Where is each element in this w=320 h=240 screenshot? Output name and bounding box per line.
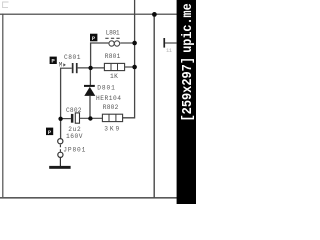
svg-text:L801: L801 [106, 29, 120, 36]
svg-text:C802: C802 [66, 107, 82, 114]
svg-text:HER104: HER104 [96, 95, 121, 102]
svg-text:upic.me: upic.me [180, 3, 196, 53]
svg-text:[259x297]: [259x297] [180, 57, 196, 122]
svg-text:P: P [92, 35, 96, 42]
svg-text:M: M [59, 62, 63, 69]
svg-text:2u2: 2u2 [68, 126, 81, 133]
svg-text:160V: 160V [66, 133, 83, 140]
svg-text:P: P [48, 129, 52, 136]
svg-text:3K9: 3K9 [104, 125, 119, 132]
svg-text:R802: R802 [103, 104, 119, 111]
svg-text:JP801: JP801 [63, 146, 85, 153]
svg-text:D801: D801 [97, 85, 115, 92]
svg-text:P: P [51, 58, 55, 65]
svg-text:11: 11 [166, 47, 173, 54]
svg-text:R801: R801 [105, 53, 121, 60]
svg-text:1K: 1K [110, 73, 118, 80]
svg-text:C801: C801 [64, 54, 81, 61]
